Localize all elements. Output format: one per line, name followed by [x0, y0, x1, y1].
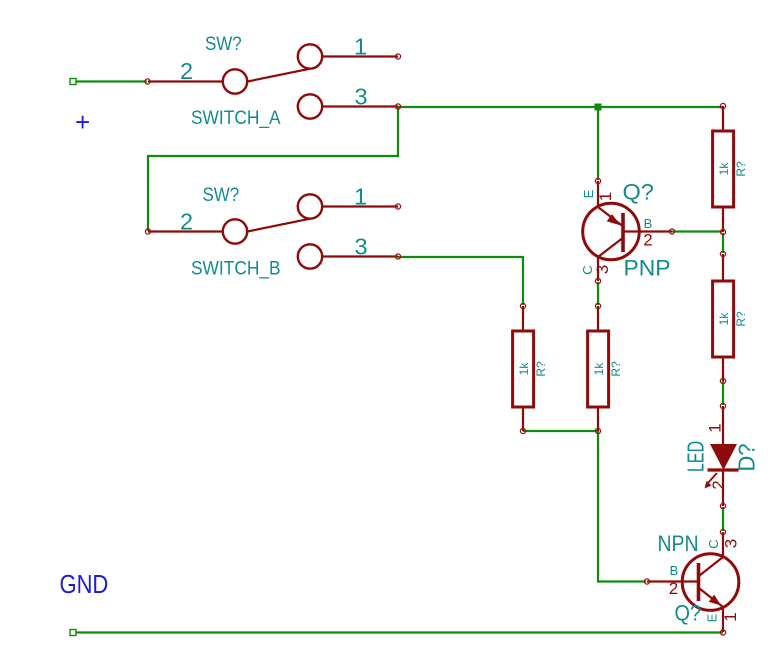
svg-text:1: 1 — [354, 184, 367, 210]
svg-text:2: 2 — [669, 579, 678, 598]
svg-text:SW?: SW? — [205, 32, 242, 54]
svg-text:1: 1 — [596, 192, 615, 201]
svg-text:PNP: PNP — [624, 256, 671, 281]
svg-text:3: 3 — [722, 539, 741, 548]
svg-text:2: 2 — [709, 480, 728, 489]
svg-text:2: 2 — [180, 58, 193, 84]
svg-text:GND: GND — [60, 570, 109, 599]
svg-text:3: 3 — [355, 84, 368, 110]
svg-text:3: 3 — [593, 265, 612, 274]
svg-text:B: B — [670, 563, 679, 578]
svg-text:NPN: NPN — [658, 532, 699, 556]
svg-text:SW?: SW? — [203, 183, 240, 205]
svg-text:1k: 1k — [517, 362, 531, 376]
svg-text:1k: 1k — [592, 362, 606, 376]
svg-text:2: 2 — [180, 209, 193, 235]
svg-text:Q?: Q? — [623, 179, 654, 204]
svg-text:+: + — [75, 107, 90, 137]
svg-text:R?: R? — [534, 361, 548, 377]
svg-text:1k: 1k — [717, 162, 731, 176]
svg-text:E: E — [581, 189, 596, 198]
svg-text:B: B — [644, 216, 653, 231]
svg-text:1: 1 — [721, 612, 740, 621]
svg-text:Q?: Q? — [675, 602, 702, 626]
svg-text:1: 1 — [354, 34, 367, 60]
svg-text:LED: LED — [684, 441, 709, 472]
svg-text:SWITCH_A: SWITCH_A — [191, 106, 281, 129]
svg-text:SWITCH_B: SWITCH_B — [191, 257, 281, 280]
svg-text:R?: R? — [734, 311, 748, 327]
svg-text:C: C — [706, 539, 721, 548]
svg-text:3: 3 — [355, 234, 368, 260]
svg-text:1: 1 — [706, 423, 725, 432]
svg-text:1k: 1k — [717, 312, 731, 326]
svg-text:D?: D? — [734, 444, 760, 472]
svg-text:E: E — [705, 613, 720, 622]
svg-text:R?: R? — [734, 161, 748, 177]
svg-text:R?: R? — [609, 361, 623, 377]
svg-text:2: 2 — [643, 231, 652, 250]
